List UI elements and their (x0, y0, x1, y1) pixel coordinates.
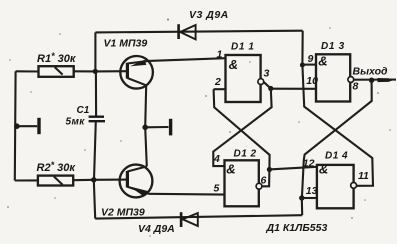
wire left rail (14, 71, 17, 180)
gate D1.4 output bubble (351, 183, 357, 189)
diode V4 (180, 212, 183, 227)
wire D1.2 output to D1.4 pin 12 (269, 167, 317, 170)
node left rail tap (14, 123, 20, 129)
terminal bar mid (169, 119, 172, 136)
wire D1.1 output to D1.3 pin 10 (271, 88, 316, 90)
wire top feedback corner down (301, 31, 303, 65)
node mid collector junction (142, 125, 148, 131)
svg-text:9: 9 (308, 53, 314, 65)
svg-text:3: 3 (264, 68, 270, 80)
wire R1 right to node V1 base (74, 70, 96, 72)
gate D1.1 output bubble (258, 79, 264, 85)
svg-text:5мк: 5мк (66, 117, 86, 128)
terminal bar left (37, 118, 40, 134)
wire R2 right to node V2 base (73, 179, 94, 181)
resistor R2 (38, 176, 73, 186)
wire bottom feedback line (95, 215, 302, 218)
wire D1.1 output (264, 82, 271, 88)
gate D1.1 (226, 55, 261, 102)
svg-text:12: 12 (303, 158, 315, 170)
svg-text:D1 3: D1 3 (321, 41, 345, 52)
wire D1.1 pin 2 stub (214, 88, 226, 90)
wire V1 emitter to D1.1 pin 1 (148, 58, 225, 61)
svg-text:V3 Д9А: V3 Д9А (189, 9, 229, 21)
wire R2 left (15, 179, 38, 181)
svg-text:11: 11 (358, 170, 369, 182)
wire C1 top lead (95, 71, 97, 115)
node D1.2 output junction (267, 167, 272, 172)
svg-text:D1 1: D1 1 (231, 42, 255, 53)
gate D1.2 output bubble (256, 183, 262, 189)
node V2 base junction (91, 177, 96, 182)
svg-text:R2* 30к: R2* 30к (37, 160, 77, 174)
wire D1.4 pin 13 stub (302, 197, 317, 199)
svg-text:2: 2 (214, 76, 221, 88)
svg-text:R1* 30к: R1* 30к (37, 51, 77, 65)
wire D1.2 output up (262, 170, 270, 187)
wire cross D1.1 output to D1.2 pin 4 (213, 89, 271, 167)
wire R1 left (16, 70, 39, 72)
diode V3 (177, 24, 180, 39)
svg-text:5: 5 (214, 182, 220, 194)
wire pin 13 down to bottom feedback (301, 198, 304, 215)
node D1.3 pin 9 junction (300, 63, 305, 68)
output arrow head (378, 78, 394, 82)
svg-text:D1 4: D1 4 (325, 150, 348, 161)
svg-text:1: 1 (217, 49, 223, 61)
wire V1 base node up (94, 32, 96, 71)
gate D1.3 output bubble (348, 77, 354, 83)
wire D1.3 pin 9 stub (302, 64, 316, 66)
wire V2 emitter to D1.2 pin 5 (149, 193, 225, 196)
resistor R1 (39, 66, 74, 77)
node D1.4 pin 13 junction (299, 195, 304, 200)
wire left terminal stub (17, 125, 37, 127)
svg-text:Д1 К1ЛБ553: Д1 К1ЛБ553 (266, 222, 328, 234)
svg-text:V2 МП39: V2 МП39 (101, 206, 145, 218)
wire cross D1.1 pin 2 to D1.2 output (214, 89, 270, 169)
svg-text:8: 8 (353, 81, 359, 93)
svg-text:6: 6 (261, 175, 267, 187)
svg-text:C1: C1 (77, 105, 90, 116)
svg-text:D1 2: D1 2 (234, 148, 257, 159)
wire top feedback line (95, 31, 302, 33)
wire cross D1.3 output to pin 13 (302, 80, 372, 198)
transistor V1 (120, 56, 153, 89)
wire cross pin 9 to D1.4 output (302, 65, 373, 186)
wire V1 base (95, 70, 127, 72)
wire output line (354, 79, 396, 81)
svg-text:10: 10 (306, 75, 318, 87)
wire V1 collector down (145, 85, 146, 127)
capacitor C1 (89, 115, 104, 117)
svg-text:&: & (229, 57, 238, 72)
svg-text:&: & (318, 53, 327, 68)
node V1 base junction (93, 69, 98, 74)
node output junction (369, 78, 374, 83)
svg-text:V1 МП39: V1 МП39 (104, 37, 148, 49)
svg-text:&: & (226, 161, 235, 176)
gate D1.3 (316, 54, 350, 101)
wire V2 base node down (94, 180, 95, 219)
wire V2 base (94, 179, 128, 181)
svg-text:V4 Д9А: V4 Д9А (138, 223, 175, 235)
gate D1.4 (317, 165, 354, 208)
svg-text:13: 13 (306, 185, 318, 197)
wire C1 bottom lead (94, 121, 96, 180)
wire V2 collector up (145, 127, 147, 166)
svg-text:&: & (319, 161, 328, 176)
transistor V2 (120, 165, 153, 198)
node D1.1 output junction (268, 86, 273, 91)
wire mid terminal stub (145, 126, 168, 128)
gate D1.2 (225, 160, 259, 206)
svg-text:Выход: Выход (353, 65, 389, 77)
svg-text:4: 4 (213, 153, 220, 165)
